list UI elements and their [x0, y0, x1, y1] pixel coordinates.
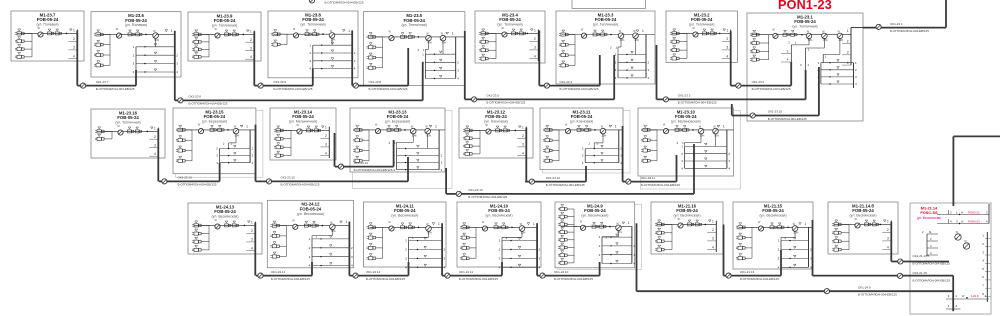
svg-text:4: 4 — [633, 262, 635, 266]
svg-text:50%: 50% — [602, 135, 607, 137]
svg-text:(ул. Полевая): (ул. Полевая) — [125, 23, 147, 27]
svg-text:1: 1 — [250, 30, 252, 34]
svg-text:1: 1 — [246, 125, 248, 129]
svg-text:(ул. Березовая): (ул. Березовая) — [385, 120, 410, 124]
svg-text:50%: 50% — [700, 135, 705, 137]
svg-text:2: 2 — [154, 135, 156, 139]
svg-text:4: 4 — [325, 151, 327, 155]
svg-text:1: 1 — [805, 222, 807, 226]
svg-text:2: 2 — [534, 37, 536, 41]
svg-text:FOB-05-24: FOB-05-24 — [595, 17, 617, 22]
svg-text:FOB-05-24: FOB-05-24 — [675, 114, 697, 119]
svg-text:Б-ОГПОМ4ЛОН-004-ЕВ/125: Б-ОГПОМ4ЛОН-004-ЕВ/125 — [468, 195, 507, 199]
svg-text:PON3-22: PON3-22 — [968, 211, 980, 215]
svg-text:FOB-05-24: FOB-05-24 — [584, 208, 606, 213]
svg-text:FOB-05-24: FOB-05-24 — [691, 17, 713, 22]
svg-text:1: 1 — [452, 32, 454, 36]
svg-text:3: 3 — [534, 46, 536, 50]
svg-text:FOB-05-24: FOB-05-24 — [394, 208, 416, 213]
svg-text:1: 1 — [251, 221, 253, 225]
svg-text:Б-ОГПОМ4ЛОН-004-ЕВ/125: Б-ОГПОМ4ЛОН-004-ЕВ/125 — [486, 101, 525, 105]
svg-text:50%: 50% — [808, 40, 813, 42]
svg-text:1: 1 — [887, 220, 889, 224]
svg-text:3: 3 — [887, 237, 889, 241]
svg-text:Б-ОГПОМ4ЛОН-004-ЕВ/125: Б-ОГПОМ4ЛОН-004-ЕВ/125 — [641, 183, 680, 187]
svg-text:FOB-05-24: FOB-05-24 — [37, 17, 59, 22]
svg-text:1: 1 — [723, 125, 725, 129]
svg-text:1: 1 — [847, 29, 849, 33]
svg-text:4: 4 — [522, 151, 524, 155]
svg-text:(ул. Березовая): (ул. Березовая) — [202, 120, 227, 124]
svg-text:50%: 50% — [235, 135, 240, 137]
svg-text:Б-ОГПОМ4ЛОН-004 ЕВ/125: Б-ОГПОМ4ЛОН-004 ЕВ/125 — [913, 278, 951, 282]
svg-text:ОК1-23.8: ОК1-23.8 — [369, 80, 382, 84]
svg-text:1: 1 — [522, 126, 524, 130]
svg-text:Б-ОГПОМ4ЛОН-004-ЕВ/125: Б-ОГПОМ4ЛОН-004-ЕВ/125 — [752, 87, 791, 91]
svg-text:50%: 50% — [521, 233, 526, 235]
svg-text:2: 2 — [887, 228, 889, 232]
svg-text:FOB-05-24: FOB-05-24 — [300, 207, 322, 212]
svg-text:50%: 50% — [412, 135, 417, 137]
svg-text:(ул. Веснянская): (ул. Веснянская) — [760, 214, 787, 218]
svg-text:(ул. Веснянская): (ул. Веснянская) — [674, 214, 701, 218]
svg-text:PON1-23: PON1-23 — [778, 0, 832, 12]
svg-text:3: 3 — [325, 143, 327, 147]
svg-text:1: 1 — [154, 127, 156, 131]
svg-text:Б-ОГПОМ4ЛОН-004-ЕВ/125: Б-ОГПОМ4ЛОН-004-ЕВ/125 — [768, 117, 807, 121]
svg-text:50%: 50% — [427, 233, 432, 235]
svg-text:FOSC-SS: FOSC-SS — [920, 210, 938, 215]
svg-text:40%: 40% — [839, 40, 844, 42]
svg-text:4: 4 — [73, 54, 75, 58]
svg-text:40%: 40% — [634, 40, 639, 42]
svg-text:FOB-05-24: FOB-05-24 — [794, 19, 816, 24]
svg-text:3: 3 — [726, 46, 728, 50]
svg-text:(ул. Мельничная): (ул. Мельничная) — [289, 120, 317, 124]
svg-text:ОК1-23.11: ОК1-23.11 — [641, 176, 655, 180]
svg-text:Б-ОГПОМ4ЛОН-004-ЕВ/125: Б-ОГПОМ4ЛОН-004-ЕВ/125 — [366, 277, 405, 281]
svg-text:ОК1-23.4: ОК1-23.4 — [560, 80, 573, 84]
svg-text:FOB-05-24: FOB-05-24 — [214, 18, 236, 23]
svg-text:Б-ОГПОМ4ЛОН-004-ЕВ/125: Б-ОГПОМ4ЛОН-004-ЕВ/125 — [354, 168, 393, 172]
svg-text:ОК1-23.5: ОК1-23.5 — [486, 94, 499, 98]
svg-text:ОК1-23.10: ОК1-23.10 — [768, 110, 783, 114]
svg-text:(ул. Веснянская): (ул. Веснянская) — [486, 214, 513, 218]
svg-text:ОК1-24.13: ОК1-24.13 — [271, 270, 286, 274]
svg-text:3: 3 — [847, 51, 849, 55]
svg-text:ОК1-21.14.б: ОК1-21.14.б — [913, 254, 930, 258]
svg-text:ОК1-23.7: ОК1-23.7 — [96, 80, 109, 84]
svg-text:Б-ОГПОМ4ЛОН-004-ЕВ/125: Б-ОГПОМ4ЛОН-004-ЕВ/125 — [281, 183, 320, 187]
svg-text:ОК1-24.11: ОК1-24.11 — [459, 270, 473, 274]
svg-text:2: 2 — [250, 38, 252, 42]
svg-text:Б-ОГПОМ4ЛОН-004-ЕВ/125: Б-ОГПОМ4ЛОН-004-ЕВ/125 — [546, 183, 585, 187]
svg-text:Б-ОГПОМ4ЛОН-004-ЕВ/125: Б-ОГПОМ4ЛОН-004-ЕВ/125 — [858, 293, 897, 297]
svg-text:Б-ОГПОМ4ЛОН-004-ЕВ/125: Б-ОГПОМ4ЛОН-004-ЕВ/125 — [459, 277, 498, 281]
svg-text:(ул. Веснянская): (ул. Веснянская) — [581, 214, 608, 218]
svg-text:(ул. Тепличная): (ул. Тепличная) — [212, 24, 237, 28]
svg-text:PON3-23: PON3-23 — [968, 220, 980, 224]
svg-text:40%: 40% — [620, 40, 625, 42]
svg-text:1: 1 — [348, 29, 350, 33]
svg-text:(ул. Веснянская): (ул. Веснянская) — [917, 216, 942, 220]
svg-text:ОК1-23.14: ОК1-23.14 — [354, 161, 369, 165]
svg-text:3: 3 — [154, 144, 156, 148]
svg-text:1: 1 — [615, 125, 617, 129]
svg-text:ОК1-23.9: ОК1-23.9 — [274, 80, 287, 84]
svg-text:(ул. Малиновская): (ул. Малиновская) — [671, 120, 701, 124]
svg-text:FOB-05-24: FOB-05-24 — [485, 114, 507, 119]
svg-text:(ул. Веснянская): (ул. Веснянская) — [850, 214, 877, 218]
svg-text:2: 2 — [847, 40, 849, 44]
svg-text:3: 3 — [522, 143, 524, 147]
svg-text:FOB-05-24: FOB-05-24 — [214, 209, 236, 214]
svg-text:1: 1 — [325, 126, 327, 130]
svg-text:ОК1-23.13: ОК1-23.13 — [468, 188, 483, 192]
svg-text:ОК1-23.6: ОК1-23.6 — [189, 95, 202, 99]
svg-text:ОК1-24.12: ОК1-24.12 — [366, 270, 381, 274]
svg-text:1: 1 — [534, 29, 536, 33]
svg-text:(ул. Тепличная): (ул. Тепличная) — [593, 23, 618, 27]
svg-text:1: 1 — [712, 220, 714, 224]
svg-text:ОК1-23.15: ОК1-23.15 — [281, 176, 296, 180]
svg-text:Б-ОГПОМ4ЛОН-004-ЕВ/125: Б-ОГПОМ4ЛОН-004-ЕВ/125 — [554, 277, 593, 281]
svg-text:Б-ОГПОМ4ЛОН-004-ЕВ/125: Б-ОГПОМ4ЛОН-004-ЕВ/125 — [189, 102, 228, 106]
svg-text:FOB-05-24: FOB-05-24 — [762, 208, 784, 213]
svg-text:1: 1 — [533, 222, 535, 226]
svg-text:1: 1 — [438, 222, 440, 226]
svg-text:2: 2 — [633, 244, 635, 248]
svg-text:Б-ОГПОМ4ЛОН-004-ЕВ/125: Б-ОГПОМ4ЛОН-004-ЕВ/125 — [678, 101, 717, 105]
svg-text:(ул. Тепличная): (ул. Тепличная) — [689, 23, 714, 27]
svg-text:FOB-05-24: FOB-05-24 — [204, 114, 226, 119]
svg-text:Б-ОГПОМ4ЛОН-004-ЕВ/125: Б-ОГПОМ4ЛОН-004-ЕВ/125 — [96, 87, 135, 91]
svg-text:10%: 10% — [617, 232, 622, 234]
svg-text:50%: 50% — [794, 233, 799, 235]
svg-text:4: 4 — [726, 54, 728, 58]
svg-text:50%: 50% — [426, 135, 431, 137]
svg-text:Б-ОГПОМ4ЛОН-004-ЕВ/125: Б-ОГПОМ4ЛОН-004-ЕВ/125 — [271, 277, 310, 281]
svg-text:4: 4 — [250, 55, 252, 59]
svg-text:FOB-05-24: FOB-05-24 — [488, 208, 510, 213]
svg-text:ОК1-24.10: ОК1-24.10 — [554, 270, 569, 274]
svg-text:(ул. Веснянская): (ул. Веснянская) — [297, 212, 324, 216]
svg-text:Б-ОГПОМ4ЛОН-004-ЕВ/125: Б-ОГПОМ4ЛОН-004-ЕВ/125 — [178, 183, 217, 187]
svg-text:FOB-05-24: FOB-05-24 — [117, 115, 139, 120]
svg-text:Б-ОГПОМ4ЛОН-004-ЕВ/125: Б-ОГПОМ4ЛОН-004-ЕВ/125 — [369, 87, 408, 91]
svg-text:40%: 40% — [427, 42, 432, 44]
svg-text:2: 2 — [712, 228, 714, 232]
svg-text:1: 1 — [628, 221, 630, 225]
svg-text:FOB-05-24: FOB-05-24 — [676, 208, 698, 213]
svg-text:Б-ОГПОМ4ЛОН-004-ЕВ/125: Б-ОГПОМ4ЛОН-004-ЕВ/125 — [274, 87, 313, 91]
svg-text:2: 2 — [73, 37, 75, 41]
svg-text:FOB-05-24: FOB-05-24 — [403, 18, 425, 23]
svg-text:(ул. Кленовая): (ул. Кленовая) — [484, 120, 508, 124]
svg-text:3: 3 — [712, 237, 714, 241]
svg-text:2: 2 — [522, 134, 524, 138]
svg-text:(ул. Полевая): (ул. Полевая) — [36, 23, 58, 27]
svg-text:50%: 50% — [714, 135, 719, 137]
svg-text:Б-ОГПОМ4ЛОН-004-ЕВ/125: Б-ОГПОМ4ЛОН-004-ЕВ/125 — [890, 29, 929, 33]
svg-text:ОК1-23.2: ОК1-23.2 — [752, 80, 765, 84]
svg-text:4: 4 — [154, 152, 156, 156]
svg-text:1: 1 — [171, 29, 173, 33]
svg-text:10%: 10% — [331, 40, 336, 42]
svg-text:4: 4 — [887, 245, 889, 249]
svg-text:(ул. Тепличная): (ул. Тепличная) — [402, 23, 427, 27]
svg-text:3: 3 — [73, 46, 75, 50]
svg-text:2: 2 — [325, 134, 327, 138]
svg-text:3: 3 — [633, 253, 635, 257]
svg-text:40%: 40% — [442, 42, 447, 44]
svg-text:(ул. Веснянская): (ул. Веснянская) — [212, 215, 239, 219]
svg-text:1: 1 — [346, 220, 348, 224]
svg-text:15%: 15% — [823, 40, 828, 42]
svg-text:FOB-05-24: FOB-05-24 — [292, 114, 314, 119]
svg-text:FOB-05-24: FOB-05-24 — [499, 17, 521, 22]
svg-text:Б-ОГПОМ4ЛОН-004-ЕВ/125: Б-ОГПОМ4ЛОН-004-ЕВ/125 — [560, 87, 599, 91]
svg-text:1: 1 — [642, 29, 644, 33]
svg-text:ОК1-23.3: ОК1-23.3 — [678, 94, 691, 98]
svg-text:(ул. Кленовая): (ул. Кленовая) — [570, 120, 594, 124]
svg-text:FOB-05-24: FOB-05-24 — [125, 18, 147, 23]
svg-text:Б-ОГПОМ4ЛОН-004-ЕВ/125: Б-ОГПОМ4ЛОН-004-ЕВ/125 — [325, 0, 364, 4]
svg-text:ОК1-23.16: ОК1-23.16 — [178, 176, 193, 180]
svg-text:3: 3 — [251, 238, 253, 242]
svg-text:3: 3 — [250, 47, 252, 51]
svg-text:ОК1-23.12: ОК1-23.12 — [546, 176, 561, 180]
svg-text:ОК1-21.15: ОК1-21.15 — [913, 271, 928, 275]
svg-text:ОК1-24.9: ОК1-24.9 — [858, 285, 871, 289]
svg-text:2: 2 — [251, 229, 253, 233]
svg-text:FOB-05-24: FOB-05-24 — [302, 17, 324, 22]
svg-text:1: 1 — [435, 125, 437, 129]
svg-text:Б-ОГПОМ4ЛОН-004-ЕВ/125: Б-ОГПОМ4ЛОН-004-ЕВ/125 — [740, 277, 779, 281]
svg-text:1: 1 — [73, 29, 75, 33]
svg-text:FOB-05-24: FOB-05-24 — [571, 114, 593, 119]
svg-text:(ул. Тепличная): (ул. Тепличная) — [497, 23, 522, 27]
svg-text:50%: 50% — [154, 40, 159, 42]
svg-text:FOB-05-24: FOB-05-24 — [852, 208, 874, 213]
svg-text:ОК1-21.16: ОК1-21.16 — [740, 270, 755, 274]
svg-text:1: 1 — [726, 29, 728, 33]
svg-text:(ул. Тепличная): (ул. Тепличная) — [792, 25, 817, 29]
svg-text:ОК1-23.1: ОК1-23.1 — [890, 22, 903, 26]
svg-text:FOB-05-24: FOB-05-24 — [387, 114, 409, 119]
svg-text:50%: 50% — [331, 231, 336, 233]
svg-text:4: 4 — [251, 246, 253, 250]
svg-text:(ул. Тепличная): (ул. Тепличная) — [115, 121, 140, 125]
svg-text:(ул. Тепличная): (ул. Тепличная) — [300, 23, 325, 27]
svg-text:4: 4 — [534, 54, 536, 58]
svg-text:1-24.9: 1-24.9 — [971, 294, 979, 298]
svg-text:4: 4 — [712, 245, 714, 249]
svg-text:2: 2 — [726, 37, 728, 41]
svg-text:(ул. Веснянская): (ул. Веснянская) — [391, 214, 418, 218]
